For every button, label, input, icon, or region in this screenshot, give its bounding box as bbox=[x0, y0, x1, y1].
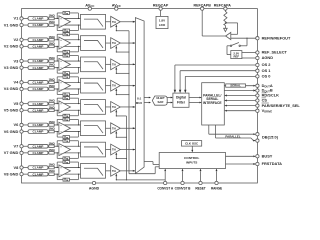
svg-text:1MΩ: 1MΩ bbox=[49, 120, 56, 124]
wire T/H ch7 to mux bbox=[120, 149, 135, 151]
svg-text:1MΩ: 1MΩ bbox=[49, 163, 56, 167]
low-pass filter ch3 bbox=[81, 57, 106, 72]
svg-text:CLAMP: CLAMP bbox=[33, 87, 44, 91]
svg-text:V5 GND: V5 GND bbox=[4, 107, 19, 112]
resistor RFB ch8 bottom bbox=[57, 174, 79, 182]
wire buffer feedback bbox=[225, 22, 238, 34]
svg-text:CLAMP: CLAMP bbox=[33, 151, 44, 155]
wire bbox=[47, 24, 50, 26]
terminal DB(15:0) bbox=[256, 133, 279, 143]
track-and-hold T/H ch5 bbox=[111, 102, 121, 113]
resistor RFB ch6 bottom bbox=[57, 131, 79, 139]
terminal RANGE bbox=[211, 181, 222, 190]
resistor RFB ch4 top bbox=[57, 75, 79, 83]
resistor RFB ch8 top bbox=[57, 161, 79, 169]
terminal RD/SCLK bbox=[256, 93, 279, 98]
wire V7 GND to clamp bbox=[23, 152, 28, 154]
svg-text:SERIAL: SERIAL bbox=[230, 83, 241, 87]
wire bbox=[54, 167, 58, 169]
resistor RFB ch3 bottom bbox=[57, 67, 79, 75]
wire bbox=[54, 103, 58, 105]
svg-text:INPUTS: INPUTS bbox=[186, 160, 197, 164]
terminal VDRIVE bbox=[256, 108, 273, 114]
wire PAR/SER/BYTE SEL bbox=[224, 105, 256, 107]
clamp V2 GND bbox=[28, 44, 48, 48]
terminal V2 bbox=[14, 37, 24, 42]
wire bbox=[47, 109, 50, 111]
wire bbox=[47, 60, 50, 62]
svg-text:CLAMP: CLAMP bbox=[33, 130, 44, 134]
wire amp ch2 to filter top bbox=[59, 39, 81, 41]
wire bbox=[47, 173, 50, 175]
clamp V3 GND bbox=[28, 66, 48, 70]
resistor 1M&#937; ch7 top bbox=[49, 141, 56, 147]
terminal REF_SELECT bbox=[256, 50, 288, 55]
resistor REFCAPA bbox=[224, 10, 227, 25]
wire bbox=[47, 152, 50, 154]
svg-text:V4: V4 bbox=[14, 80, 20, 85]
svg-text:OS 0: OS 0 bbox=[262, 74, 271, 79]
terminal V8 GND bbox=[4, 171, 23, 176]
wire bbox=[54, 60, 58, 62]
wire T/H control ch8 bbox=[115, 174, 165, 181]
svg-text:V8: V8 bbox=[14, 165, 20, 170]
svg-text:RANGE: RANGE bbox=[211, 187, 222, 191]
wire bbox=[47, 17, 50, 19]
wire T/H control ch2 bbox=[115, 46, 129, 53]
clamp V1 GND bbox=[28, 23, 48, 27]
junction bbox=[128, 73, 129, 74]
wire bbox=[54, 124, 58, 126]
wire bbox=[47, 88, 50, 90]
wire bbox=[54, 81, 58, 83]
wire bbox=[47, 145, 50, 147]
wire V4 GND to clamp bbox=[23, 88, 28, 90]
wire OS 1 to digital filter bbox=[179, 71, 256, 93]
resistor RFB ch7 top bbox=[57, 139, 79, 147]
svg-text:REF_SELECT: REF_SELECT bbox=[262, 50, 288, 55]
wire ref to AGND bbox=[242, 57, 256, 59]
wire SAR to digital filter bbox=[167, 97, 173, 99]
wire ref to REF_SELECT bbox=[242, 52, 256, 54]
wire V2 to clamp bbox=[23, 39, 28, 41]
resistor 1M&#937; ch4 bottom bbox=[49, 84, 56, 90]
wire serial DOUTA bbox=[224, 85, 256, 87]
svg-text:T/H: T/H bbox=[112, 42, 116, 45]
svg-text:OS 2: OS 2 bbox=[262, 62, 272, 67]
clamp V8 GND bbox=[28, 172, 48, 176]
wire T/H ch5 to mux bbox=[120, 106, 135, 108]
wire bbox=[47, 67, 50, 69]
terminal RESET bbox=[195, 181, 205, 190]
clamp V4 GND bbox=[28, 87, 48, 91]
svg-text:1MΩ: 1MΩ bbox=[49, 141, 56, 145]
svg-text:CLAMP: CLAMP bbox=[33, 80, 44, 84]
wire V1 GND to clamp bbox=[23, 24, 28, 26]
wire VDRIVE bbox=[224, 110, 256, 112]
terminal OS 2 bbox=[256, 62, 272, 67]
resistor 1M&#937; ch2 bottom bbox=[49, 41, 56, 47]
svg-text:T/H: T/H bbox=[112, 149, 116, 152]
wire bbox=[54, 109, 58, 111]
wire to buffer input bbox=[224, 26, 226, 29]
svg-text:REFCAPA: REFCAPA bbox=[214, 3, 232, 7]
terminal CONVST B bbox=[175, 181, 192, 190]
wire bbox=[47, 167, 50, 169]
wire mux to SAR bbox=[144, 97, 151, 99]
svg-text:T/H: T/H bbox=[112, 85, 116, 88]
wire V5 to clamp bbox=[23, 103, 28, 105]
wire bbox=[106, 106, 111, 108]
svg-text:1MΩ: 1MΩ bbox=[49, 84, 56, 88]
svg-text:V6 GND: V6 GND bbox=[4, 129, 19, 134]
wire bbox=[54, 131, 58, 133]
svg-text:V2 GND: V2 GND bbox=[4, 44, 19, 49]
wire bbox=[47, 81, 50, 83]
svg-text:V1: V1 bbox=[14, 16, 20, 21]
wire V3 GND to clamp bbox=[23, 67, 28, 69]
wire bbox=[47, 39, 50, 41]
svg-text:8:1: 8:1 bbox=[137, 96, 141, 100]
wire T/H control ch7 bbox=[115, 152, 126, 159]
wire amp ch6 to filter top bbox=[59, 124, 81, 126]
svg-text:SAR: SAR bbox=[157, 100, 163, 104]
wire bbox=[47, 45, 50, 47]
wire bbox=[54, 173, 58, 175]
terminal CONVST A bbox=[157, 181, 173, 190]
wire bbox=[106, 85, 111, 87]
svg-text:1MΩ: 1MΩ bbox=[49, 20, 56, 24]
wire bus A to control block bbox=[129, 167, 159, 174]
wire amp ch5 to filter top bbox=[59, 103, 81, 105]
resistor 1M&#937; ch8 bottom bbox=[49, 169, 56, 175]
wire bbox=[54, 145, 58, 147]
low-pass filter ch4 bbox=[81, 78, 106, 93]
op-amp A3 bbox=[59, 58, 71, 70]
svg-text:1MΩ: 1MΩ bbox=[49, 63, 56, 67]
resistor 1M&#937; ch6 top bbox=[49, 120, 56, 126]
svg-text:REFCAPB: REFCAPB bbox=[194, 3, 212, 7]
resistor RFB ch2 bottom bbox=[57, 46, 79, 54]
wire T/H ch1 to mux bbox=[120, 21, 135, 23]
wire bbox=[106, 149, 111, 151]
wire amp ch3 to filter bottom bbox=[59, 67, 81, 69]
low-pass filter ch5 bbox=[81, 100, 106, 115]
low-pass filter ch2 bbox=[81, 36, 106, 51]
wire OS 2 to digital filter bbox=[174, 65, 256, 93]
svg-text:CLAMP: CLAMP bbox=[33, 17, 44, 21]
wire CONVST A bus bbox=[128, 31, 130, 174]
wire bbox=[47, 103, 50, 105]
wire amp ch4 to filter bottom bbox=[59, 88, 81, 90]
svg-text:REGCAP: REGCAP bbox=[153, 3, 169, 7]
wire FRSTDATA bbox=[226, 163, 256, 165]
resistor 1M&#937; ch3 top bbox=[49, 56, 56, 62]
svg-text:V7: V7 bbox=[14, 143, 19, 148]
svg-text:1MΩ: 1MΩ bbox=[49, 105, 56, 109]
track-and-hold T/H ch4 bbox=[111, 80, 121, 91]
8:1 mux bbox=[135, 18, 144, 174]
track-and-hold T/H ch1 bbox=[111, 16, 121, 27]
svg-text:1MΩ: 1MΩ bbox=[49, 35, 56, 39]
wire T/H control ch3 bbox=[115, 67, 129, 74]
wire clk osc to control bbox=[191, 146, 193, 152]
wire CONVST B bus bbox=[126, 116, 128, 180]
resistor RFB ch1 top bbox=[57, 11, 79, 19]
op-amp A4 bbox=[59, 80, 71, 92]
clamp V7 GND bbox=[28, 151, 48, 155]
wire REGCAP to LDO bbox=[160, 10, 162, 16]
clamp V6 bbox=[28, 123, 48, 127]
svg-text:V2: V2 bbox=[14, 37, 20, 42]
svg-text:V5: V5 bbox=[14, 101, 20, 106]
resistor 1M&#937; ch4 top bbox=[49, 77, 56, 83]
svg-text:PARALLEL: PARALLEL bbox=[225, 134, 240, 138]
svg-text:RESET: RESET bbox=[195, 187, 205, 191]
resistor 1M&#937; ch1 top bbox=[49, 13, 56, 19]
terminal V6 GND bbox=[4, 129, 23, 134]
svg-text:V7 GND: V7 GND bbox=[4, 150, 19, 155]
resistor RFB ch5 top bbox=[57, 97, 79, 105]
svg-text:CLAMP: CLAMP bbox=[33, 144, 44, 148]
clamp V7 bbox=[28, 144, 48, 148]
svg-text:1MΩ: 1MΩ bbox=[49, 148, 56, 152]
terminal V7 GND bbox=[4, 150, 23, 155]
svg-text:OS 1: OS 1 bbox=[262, 68, 272, 73]
wire amp ch7 to filter bottom bbox=[59, 152, 81, 154]
svg-text:CLAMP: CLAMP bbox=[33, 59, 44, 63]
svg-text:REFIN/REFOUT: REFIN/REFOUT bbox=[262, 35, 291, 40]
track-and-hold T/H ch7 bbox=[111, 144, 121, 155]
svg-text:CLAMP: CLAMP bbox=[33, 102, 44, 106]
svg-text:CLK OSC: CLK OSC bbox=[185, 141, 199, 145]
low-pass filter ch8 bbox=[81, 164, 106, 179]
wire amp ch7 to filter top bbox=[59, 145, 81, 147]
clock oscillator block bbox=[182, 141, 202, 147]
wire amp ch1 to filter top bbox=[59, 17, 81, 19]
svg-text:CLAMP: CLAMP bbox=[33, 44, 44, 48]
wire V5 GND to clamp bbox=[23, 109, 28, 111]
16-bit SAR ADC U1 bbox=[152, 96, 167, 105]
wire mux to SAR bbox=[144, 102, 151, 104]
svg-text:VDRIVE: VDRIVE bbox=[262, 108, 273, 114]
terminal CS bbox=[256, 98, 268, 103]
clamp V1 bbox=[28, 17, 48, 21]
terminal V4 GND bbox=[4, 86, 23, 91]
wire bbox=[54, 24, 58, 26]
wire T/H control ch4 bbox=[115, 88, 129, 95]
terminal V3 GND bbox=[4, 65, 23, 70]
terminal OS 1 bbox=[256, 68, 272, 73]
terminal DOUTA bbox=[256, 83, 273, 89]
terminal REFIN/REFOUT bbox=[256, 35, 291, 40]
wire to ref switch bbox=[240, 38, 247, 46]
svg-text:V3: V3 bbox=[14, 58, 20, 63]
wire bbox=[54, 88, 58, 90]
wire T/H ch4 to mux bbox=[120, 85, 135, 87]
wire bbox=[54, 45, 58, 47]
clamp V5 GND bbox=[28, 108, 48, 112]
svg-text:1MΩ: 1MΩ bbox=[49, 169, 56, 173]
wire mux control bbox=[144, 162, 159, 165]
wire switch to 2.5V ref bbox=[227, 46, 231, 55]
wire bbox=[54, 17, 58, 19]
low-pass filter ch7 bbox=[81, 142, 106, 157]
wire V6 GND to clamp bbox=[23, 131, 28, 133]
junction bbox=[128, 94, 129, 95]
wire T/H control ch1 bbox=[115, 24, 129, 31]
svg-text:Filter: Filter bbox=[177, 100, 186, 104]
svg-text:FRSTDATA: FRSTDATA bbox=[262, 161, 283, 166]
parallel/serial interface block bbox=[202, 83, 225, 125]
svg-text:INTERFACE: INTERFACE bbox=[203, 101, 222, 105]
svg-text:CLAMP: CLAMP bbox=[33, 66, 44, 70]
wire T/H control ch5 bbox=[115, 110, 126, 117]
terminal V4 bbox=[14, 80, 24, 85]
terminal V3 bbox=[14, 58, 24, 63]
wire V8 GND to clamp bbox=[23, 173, 28, 175]
terminal AVCC 2 bbox=[112, 2, 121, 10]
wire T/H ch2 to mux bbox=[120, 42, 135, 44]
svg-text:T/H: T/H bbox=[112, 106, 116, 109]
wire T/H control ch6 bbox=[115, 131, 126, 138]
wire OS 0 to digital filter bbox=[184, 76, 256, 93]
wire bbox=[106, 63, 111, 65]
clamp V3 bbox=[28, 59, 48, 63]
op-amp A5 bbox=[59, 101, 71, 113]
terminal V5 GND bbox=[4, 107, 23, 112]
terminal V1 GND bbox=[4, 22, 23, 27]
svg-text:V8 GND: V8 GND bbox=[4, 171, 19, 176]
terminal V2 GND bbox=[4, 44, 23, 49]
wire parallel bus bbox=[209, 125, 256, 142]
open arrowhead down bbox=[224, 28, 228, 31]
svg-text:LDO: LDO bbox=[159, 23, 166, 27]
svg-text:CC: CC bbox=[90, 4, 94, 8]
wire bbox=[47, 131, 50, 133]
svg-text:CONVST A: CONVST A bbox=[157, 187, 173, 191]
clamp V5 bbox=[28, 102, 48, 106]
terminal V8 bbox=[14, 165, 24, 170]
resistor RFB ch6 top bbox=[57, 118, 79, 126]
svg-text:AGND: AGND bbox=[89, 187, 100, 191]
clamp V8 bbox=[28, 166, 48, 170]
terminal REFCAPA bbox=[214, 3, 232, 10]
wire CONVST B bbox=[182, 169, 184, 182]
wire amp ch6 to filter bottom bbox=[59, 131, 81, 133]
wire V3 to clamp bbox=[23, 60, 28, 62]
wire bbox=[106, 127, 111, 129]
svg-text:1MΩ: 1MΩ bbox=[49, 99, 56, 103]
chip boundary frame bbox=[22, 9, 258, 183]
wire CONVST A bbox=[164, 169, 166, 182]
low-pass filter ch1 bbox=[81, 14, 106, 29]
wire RANGE bbox=[216, 169, 218, 182]
resistor RFB ch1 bottom bbox=[57, 25, 79, 33]
op-amp A8 bbox=[59, 165, 71, 177]
resistor RFB ch7 bottom bbox=[57, 152, 79, 160]
terminal OS 0 bbox=[256, 74, 271, 79]
resistor RFB ch5 bottom bbox=[57, 110, 79, 118]
wire V6 to clamp bbox=[23, 124, 28, 126]
svg-text:T/H: T/H bbox=[112, 63, 116, 66]
track-and-hold T/H ch8 bbox=[111, 165, 121, 176]
wire bbox=[54, 39, 58, 41]
terminal FRSTDATA bbox=[256, 161, 282, 166]
svg-text:CLAMP: CLAMP bbox=[33, 172, 44, 176]
wire T/H ch6 to mux bbox=[120, 127, 135, 129]
wire BUSY bbox=[226, 155, 256, 157]
wire amp ch8 to filter top bbox=[59, 167, 81, 169]
resistor RFB ch2 top bbox=[57, 33, 79, 41]
wire V2 GND to clamp bbox=[23, 45, 28, 47]
terminal V5 bbox=[14, 101, 24, 106]
wire amp ch8 to filter bottom bbox=[59, 173, 81, 175]
wire SAR to digital filter bbox=[167, 102, 173, 104]
wire bbox=[106, 42, 111, 44]
svg-text:CONTROL: CONTROL bbox=[184, 156, 199, 160]
svg-text:V4 GND: V4 GND bbox=[4, 86, 19, 91]
wire bbox=[106, 170, 111, 172]
svg-text:CLAMP: CLAMP bbox=[33, 38, 44, 42]
svg-text:CC: CC bbox=[117, 4, 121, 8]
terminal REFCAPB bbox=[194, 3, 212, 10]
terminal V1 bbox=[14, 16, 24, 21]
svg-text:1MΩ: 1MΩ bbox=[49, 77, 56, 81]
wire V4 to clamp bbox=[23, 81, 28, 83]
serial bus label bbox=[226, 83, 246, 87]
svg-text:PAR/SER/BYTE_SEL: PAR/SER/BYTE_SEL bbox=[262, 103, 300, 108]
clamp V2 bbox=[28, 38, 48, 42]
wire bbox=[54, 152, 58, 154]
wire digital filter to interface bbox=[189, 97, 202, 99]
svg-text:T/H: T/H bbox=[112, 127, 116, 130]
wire bbox=[106, 21, 111, 23]
svg-text:1MΩ: 1MΩ bbox=[49, 13, 56, 17]
resistor RFB ch3 top bbox=[57, 54, 79, 62]
low-pass filter ch6 bbox=[81, 121, 106, 136]
junction bbox=[126, 137, 127, 138]
wire serial DOUTB bbox=[224, 90, 256, 92]
wire RD/SCLK bbox=[224, 95, 256, 97]
terminal PAR/SER/BYTE SEL bbox=[256, 103, 301, 108]
op-amp A7 bbox=[59, 144, 71, 156]
wire V8 to clamp bbox=[23, 167, 28, 169]
track-and-hold T/H ch2 bbox=[111, 38, 121, 49]
svg-text:DB(15:0): DB(15:0) bbox=[262, 135, 279, 140]
resistor 1M&#937; ch8 top bbox=[49, 163, 56, 169]
wire buffer to REFIN/REFOUT bbox=[231, 38, 256, 39]
wire bbox=[47, 124, 50, 126]
svg-text:CLAMP: CLAMP bbox=[33, 108, 44, 112]
resistor 1M&#937; ch2 top bbox=[49, 35, 56, 41]
terminal V6 bbox=[14, 122, 24, 127]
terminal AGND bottom bbox=[89, 181, 100, 190]
svg-text:CONVST B: CONVST B bbox=[175, 187, 192, 191]
svg-text:1MΩ: 1MΩ bbox=[49, 127, 56, 131]
resistor 1M&#937; ch5 top bbox=[49, 99, 56, 105]
wire T/H ch3 to mux bbox=[120, 63, 135, 65]
wire V1 to clamp bbox=[23, 17, 28, 19]
clamp V4 bbox=[28, 80, 48, 84]
terminal AVCC 1 bbox=[85, 2, 94, 10]
resistor 1M&#937; ch7 bottom bbox=[49, 148, 56, 154]
wire bbox=[54, 67, 58, 69]
track-and-hold T/H ch3 bbox=[111, 59, 121, 70]
clamp V6 GND bbox=[28, 130, 48, 134]
svg-text:V3 GND: V3 GND bbox=[4, 65, 19, 70]
wire REFCAPB to buffer bbox=[202, 10, 225, 36]
